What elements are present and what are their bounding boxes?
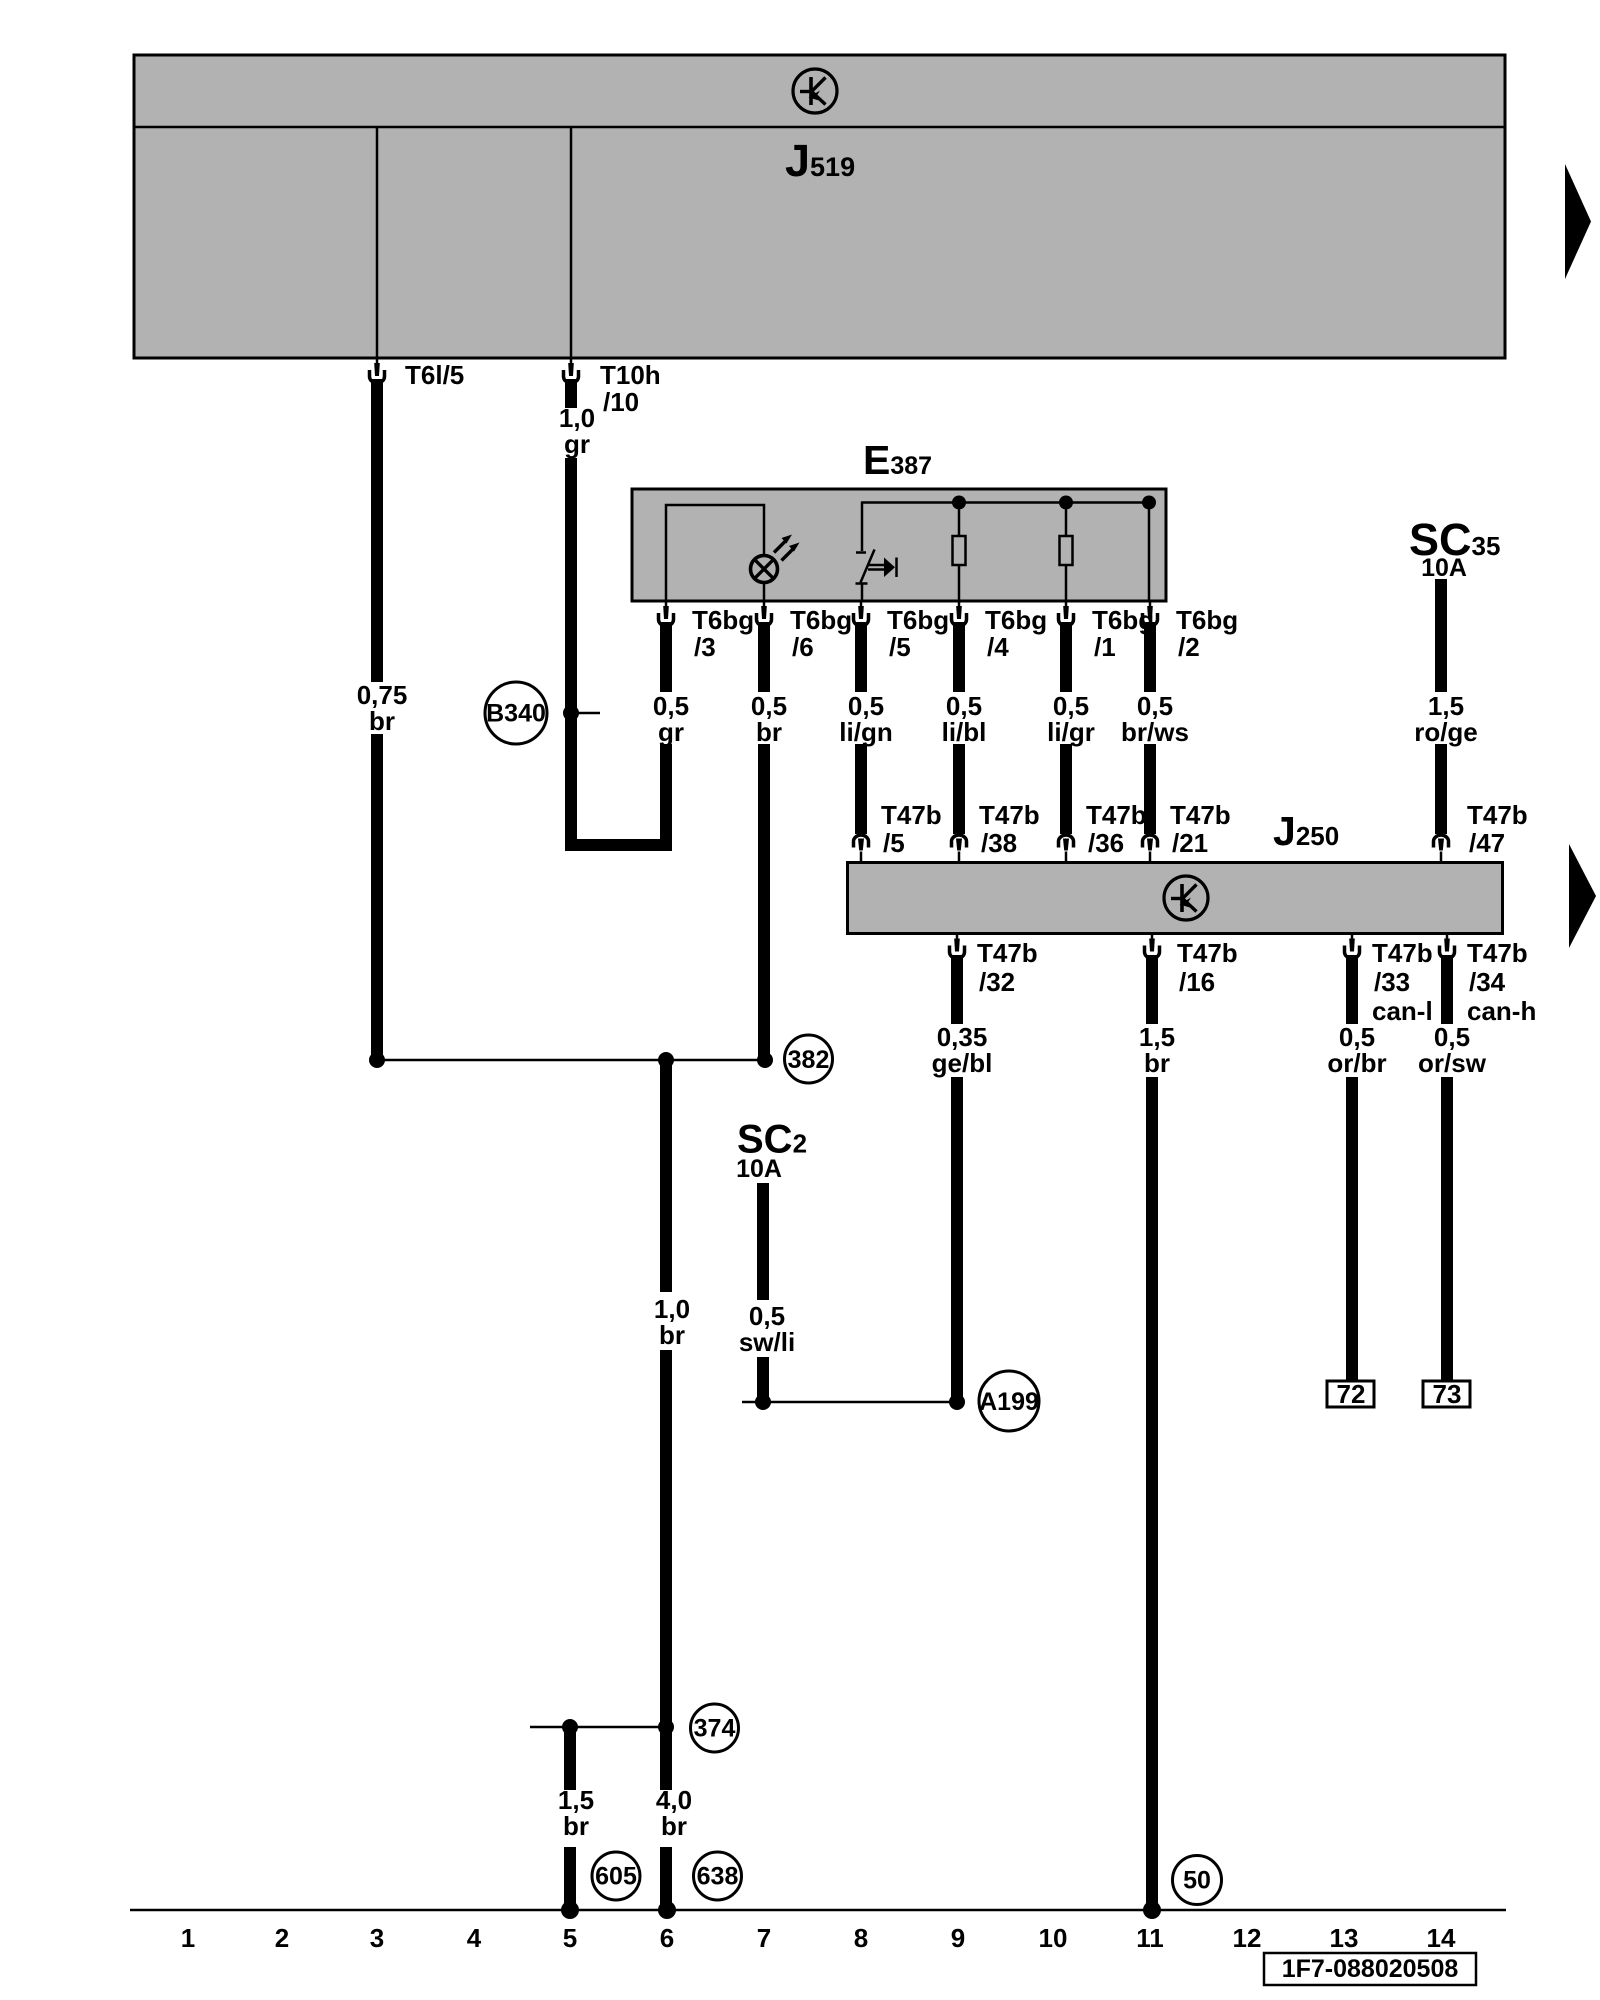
svg-text:or/sw: or/sw [1418, 1048, 1487, 1078]
svg-text:10: 10 [1039, 1923, 1068, 1953]
svg-text:T47b: T47b [1086, 800, 1147, 830]
svg-text:374: 374 [694, 1715, 736, 1743]
svg-text:638: 638 [697, 1863, 739, 1891]
svg-text:3: 3 [370, 1923, 384, 1953]
svg-text:T6bg: T6bg [692, 605, 754, 635]
svg-text:can-h: can-h [1467, 996, 1536, 1026]
svg-text:A199: A199 [979, 1388, 1039, 1416]
svg-text:T47b: T47b [881, 800, 942, 830]
svg-text:1: 1 [181, 1923, 195, 1953]
svg-text:T47b: T47b [977, 938, 1038, 968]
svg-text:/2: /2 [1178, 632, 1200, 662]
svg-text:T47b: T47b [1170, 800, 1231, 830]
svg-text:8: 8 [854, 1923, 868, 1953]
svg-text:sw/li: sw/li [739, 1327, 795, 1357]
svg-text:/21: /21 [1172, 828, 1208, 858]
svg-text:T47b: T47b [1467, 938, 1528, 968]
svg-text:T47b: T47b [1372, 938, 1433, 968]
svg-text:/3: /3 [694, 632, 716, 662]
svg-text:10A: 10A [736, 1155, 782, 1183]
svg-text:382: 382 [788, 1046, 830, 1074]
svg-text:/38: /38 [981, 828, 1017, 858]
svg-text:T47b: T47b [1467, 800, 1528, 830]
svg-text:/1: /1 [1094, 632, 1116, 662]
svg-text:/16: /16 [1179, 967, 1215, 997]
svg-text:11: 11 [1136, 1923, 1164, 1953]
svg-text:7: 7 [757, 1923, 771, 1953]
svg-text:ro/ge: ro/ge [1414, 717, 1478, 747]
svg-text:or/br: or/br [1327, 1048, 1386, 1078]
svg-text:T6bg: T6bg [985, 605, 1047, 635]
svg-text:li/gn: li/gn [839, 717, 892, 747]
svg-text:gr: gr [564, 429, 590, 459]
svg-text:/4: /4 [987, 632, 1009, 662]
svg-text:T6bg: T6bg [790, 605, 852, 635]
svg-text:T6l/5: T6l/5 [405, 360, 464, 390]
svg-text:605: 605 [595, 1863, 637, 1891]
svg-text:T10h: T10h [600, 360, 661, 390]
svg-text:12: 12 [1233, 1923, 1262, 1953]
svg-text:/6: /6 [792, 632, 814, 662]
svg-text:6: 6 [660, 1923, 674, 1953]
svg-text:T6bg: T6bg [887, 605, 949, 635]
svg-text:gr: gr [658, 717, 684, 747]
svg-text:ge/bl: ge/bl [932, 1048, 993, 1078]
svg-text:br: br [369, 706, 395, 736]
svg-text:br: br [563, 1811, 589, 1841]
svg-text:13: 13 [1330, 1923, 1359, 1953]
svg-text:/10: /10 [603, 387, 639, 417]
svg-text:2: 2 [275, 1923, 289, 1953]
svg-text:10A: 10A [1421, 554, 1467, 582]
svg-text:br: br [659, 1320, 685, 1350]
svg-text:4: 4 [467, 1923, 482, 1953]
svg-text:5: 5 [563, 1923, 577, 1953]
svg-text:/33: /33 [1374, 967, 1410, 997]
svg-text:72: 72 [1337, 1379, 1366, 1409]
svg-text:T47b: T47b [979, 800, 1040, 830]
svg-text:/32: /32 [979, 967, 1015, 997]
svg-text:li/gr: li/gr [1047, 717, 1095, 747]
svg-text:/36: /36 [1088, 828, 1124, 858]
svg-text:br: br [1144, 1048, 1170, 1078]
svg-text:br/ws: br/ws [1121, 717, 1189, 747]
svg-text:14: 14 [1427, 1923, 1456, 1953]
svg-text:73: 73 [1433, 1379, 1462, 1409]
svg-text:T47b: T47b [1177, 938, 1238, 968]
svg-text:can-l: can-l [1372, 996, 1433, 1026]
svg-text:B340: B340 [486, 700, 546, 728]
svg-text:T6bg: T6bg [1176, 605, 1238, 635]
svg-text:/5: /5 [883, 828, 905, 858]
svg-text:/47: /47 [1469, 828, 1505, 858]
svg-text:li/bl: li/bl [942, 717, 987, 747]
svg-text:br: br [756, 717, 782, 747]
svg-text:/5: /5 [889, 632, 911, 662]
svg-text:/34: /34 [1469, 967, 1506, 997]
svg-text:50: 50 [1183, 1867, 1211, 1895]
svg-text:1F7-088020508: 1F7-088020508 [1282, 1955, 1459, 1983]
svg-text:9: 9 [951, 1923, 965, 1953]
svg-text:br: br [661, 1811, 687, 1841]
